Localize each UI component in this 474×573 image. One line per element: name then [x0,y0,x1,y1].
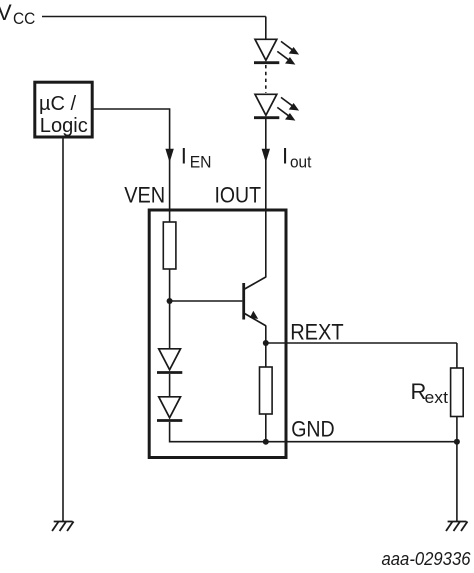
svg-text:EN: EN [190,153,212,172]
wire GND horizontal [266,441,457,443]
svg-text:I: I [181,144,187,169]
current arrow IEN [165,149,173,163]
svg-text:I: I [282,144,288,169]
wire node A to Q1 base [170,300,243,302]
label Iout [282,144,312,172]
svg-text:VEN: VEN [124,182,165,207]
wire LED D2 to IOUT pin [265,119,267,210]
wire Q1 collector to IOUT pin [265,210,267,277]
diode D4 [157,397,182,421]
LED D2 [254,94,279,117]
resistor Rext [451,368,464,417]
wire node to ground right [456,442,458,521]
wire dashed series LEDs [265,65,267,93]
wire R2 to node GND [265,414,267,442]
svg-text:V: V [0,0,12,25]
LED D2 light arrows [277,97,297,119]
wire Q1 emitter to node REXT [265,326,267,343]
IC U2 outline [149,210,286,458]
svg-text:aaa-029336: aaa-029336 [382,549,472,568]
ground left [52,522,74,532]
LED D1 [254,39,279,62]
node GND junction [263,439,269,445]
svg-text:µC /: µC / [39,93,77,115]
wire node A to diode D3 [169,301,171,349]
wire VEN pin to resistor R1 [169,210,171,222]
svg-text:GND: GND [291,417,335,442]
resistor R2 [260,367,273,414]
transistor Q1 [244,277,267,326]
svg-text:ext: ext [425,388,449,407]
block U1 uC/Logic [35,82,92,137]
svg-text:REXT: REXT [290,320,344,345]
resistor R1 [163,222,176,269]
node REXT junction [263,340,269,346]
svg-text:Logic: Logic [40,115,88,137]
wire Rext to node right GND [456,417,458,442]
wire REXT horizontal [266,342,457,344]
svg-text:out: out [290,153,312,172]
node right GND junction [454,439,460,445]
wire REXT to resistor Rext [456,343,458,368]
wire D3 to D4 [169,374,171,397]
wire D4 to GND rail [170,422,266,442]
wire U1 to VEN pin [92,109,170,210]
LED D1 light arrows [277,41,297,63]
current arrow Iout [262,149,270,163]
wire U1 to ground left [62,137,64,521]
svg-text:CC: CC [13,9,35,28]
wire VCC horizontal [42,16,266,18]
label Rext [411,379,449,407]
svg-text:IOUT: IOUT [215,182,262,207]
net VCC label [0,0,35,28]
wire node REXT to resistor R2 [265,343,267,367]
label IEN [181,144,212,172]
wire R1 to node A [169,269,171,301]
node A junction [167,298,173,304]
diode D3 [157,349,182,373]
wire VCC down to LED D1 [265,17,267,40]
ground right [446,522,468,532]
